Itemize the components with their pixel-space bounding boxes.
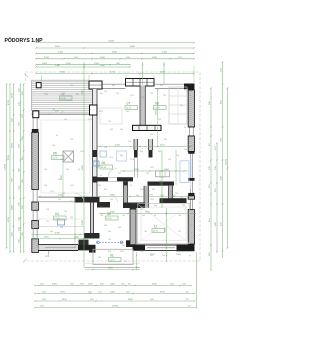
svg-text:900: 900 [110, 199, 113, 201]
svg-text:3650: 3650 [165, 226, 167, 232]
svg-text:3250: 3250 [55, 65, 61, 67]
right wall sill bar [188, 178, 194, 181]
top dim line 2 [35, 46, 194, 49]
svg-text:150: 150 [108, 121, 111, 123]
ticks below right wing [136, 255, 137, 256]
wall stub A [134, 139, 138, 158]
svg-text:1970: 1970 [109, 157, 113, 159]
svg-text:250: 250 [98, 185, 101, 187]
dim int v x63 [62, 162, 64, 197]
svg-text:90: 90 [148, 191, 150, 193]
right wall seg C2 [188, 196, 194, 199]
svg-text:900: 900 [170, 191, 173, 193]
left wall jamb [32, 129, 39, 132]
svg-text:800: 800 [154, 205, 157, 207]
svg-text:150: 150 [158, 119, 161, 121]
svg-text:DL 05: DL 05 [126, 108, 131, 110]
dim int v x176 [175, 150, 177, 185]
svg-text:DL 05: DL 05 [61, 98, 66, 100]
dim int v x75 [74, 198, 76, 248]
svg-text:12: 12 [61, 92, 65, 96]
left wall glass top [32, 118, 34, 129]
svg-text:800: 800 [98, 257, 101, 259]
svg-text:4700: 4700 [8, 216, 10, 222]
svg-text:600: 600 [180, 105, 183, 107]
svg-text:1970: 1970 [50, 191, 54, 193]
svg-text:700: 700 [122, 245, 125, 247]
svg-text:800: 800 [158, 151, 161, 153]
svg-text:2250: 2250 [44, 237, 50, 239]
counter room 04 [38, 225, 84, 227]
dim int h y171 [120, 170, 188, 172]
svg-text:150: 150 [104, 91, 107, 93]
window top wall left [89, 81, 102, 89]
top dim line 3 [35, 52, 194, 55]
svg-text:16040: 16040 [5, 163, 7, 170]
right wall bar B2 [188, 151, 194, 153]
svg-text:800: 800 [112, 85, 115, 87]
left wall bottom block [32, 239, 39, 253]
door arc hall [110, 195, 118, 203]
svg-text:150: 150 [60, 227, 63, 229]
svg-text:3100: 3100 [12, 92, 14, 98]
hall band wall B [123, 203, 145, 209]
right wall seg A hatched [188, 90, 194, 127]
svg-text:2450: 2450 [152, 57, 158, 59]
svg-text:250: 250 [178, 231, 181, 233]
right dim line 4 overall [226, 87, 229, 248]
top-right wall corner [184, 84, 195, 91]
svg-text:700: 700 [176, 155, 179, 157]
svg-text:1970: 1970 [88, 119, 92, 121]
top dim line 4 [35, 57, 194, 60]
svg-text:3900: 3900 [12, 142, 14, 148]
svg-text:2250: 2250 [66, 63, 72, 65]
section line A [96, 241, 124, 244]
svg-text:700: 700 [100, 215, 103, 217]
svg-text:700: 700 [64, 211, 67, 213]
svg-text:800: 800 [96, 167, 99, 169]
room label 12 [60, 92, 73, 100]
left dim line 5 [22, 83, 25, 252]
room 11 diagonal [138, 205, 189, 244]
dim int h y115 ticks [49, 113, 50, 114]
svg-text:1800: 1800 [88, 284, 94, 286]
svg-text:250: 250 [140, 251, 143, 253]
svg-text:2000: 2000 [42, 63, 48, 65]
svg-text:1970: 1970 [80, 151, 84, 153]
bottom dim connector right [196, 252, 198, 308]
room label 08 [154, 102, 167, 110]
svg-text:1970: 1970 [99, 111, 103, 113]
right wall bar C [188, 193, 194, 196]
svg-text:700: 700 [100, 207, 103, 209]
svg-text:900: 900 [184, 149, 187, 151]
svg-text:600: 600 [70, 201, 73, 203]
svg-text:DL 05: DL 05 [55, 218, 60, 220]
dim int v x157.5 [157, 88, 159, 147]
svg-text:4450: 4450 [162, 52, 168, 54]
bottom dim line 4 overall [34, 306, 197, 309]
svg-text:600: 600 [52, 145, 55, 147]
door niche on W1 [90, 105, 98, 115]
svg-text:1850: 1850 [61, 174, 63, 180]
svg-text:1970: 1970 [150, 167, 154, 169]
top dim line 1 overall [35, 41, 194, 44]
svg-text:900: 900 [126, 111, 129, 113]
tick below left wall [48, 252, 49, 253]
dim int h y67 [36, 66, 130, 68]
svg-text:600: 600 [164, 139, 167, 141]
I-wall top flange [84, 197, 100, 203]
bottom dim line 2 [34, 292, 195, 295]
room label 02 [106, 212, 119, 220]
svg-text:150: 150 [70, 139, 73, 141]
left dim line 2 [8, 83, 11, 252]
top dim line 5 [35, 63, 130, 66]
extension verticals top wall [41, 75, 43, 81]
dim int v x166.5 [166, 208, 168, 262]
svg-text:900: 900 [136, 195, 139, 197]
left wall pier 1 [32, 202, 39, 210]
right wall bottom corner [177, 244, 195, 251]
svg-text:4690: 4690 [112, 52, 118, 54]
porch step line [85, 267, 140, 269]
svg-text:5250: 5250 [160, 72, 166, 74]
right wall window bath 2 [190, 181, 192, 193]
door arc bath [108, 169, 117, 178]
svg-text:4700: 4700 [110, 72, 116, 74]
tiny dimension annotations [44, 85, 191, 263]
svg-text:700: 700 [178, 215, 181, 217]
svg-text:250: 250 [140, 209, 143, 211]
right wall seg B [188, 136, 194, 151]
svg-text:900: 900 [58, 179, 61, 181]
svg-text:150: 150 [46, 221, 49, 223]
svg-text:150: 150 [46, 209, 49, 211]
svg-text:11: 11 [154, 225, 158, 229]
svg-text:1200: 1200 [160, 179, 162, 185]
svg-text:06: 06 [102, 161, 106, 165]
svg-text:6100: 6100 [62, 299, 68, 301]
svg-text:3600: 3600 [108, 268, 114, 270]
svg-text:07: 07 [127, 102, 131, 106]
svg-text:250: 250 [108, 231, 111, 233]
wall stub B [149, 139, 153, 158]
svg-text:2350: 2350 [176, 254, 182, 256]
svg-text:3770: 3770 [148, 195, 154, 197]
svg-text:250: 250 [175, 193, 178, 195]
right wall window 3 [190, 199, 192, 209]
svg-text:5750: 5750 [60, 292, 66, 294]
svg-text:800: 800 [108, 251, 111, 253]
svg-text:250: 250 [118, 173, 121, 175]
room label 06 [100, 161, 113, 169]
svg-text:600: 600 [104, 189, 107, 191]
svg-text:4430: 4430 [55, 233, 61, 235]
svg-text:3000: 3000 [110, 284, 116, 286]
bottom wall left wing [38, 245, 78, 251]
dim int h y238.5 [31, 238, 99, 240]
svg-text:250: 250 [104, 147, 107, 149]
svg-text:2950: 2950 [164, 169, 170, 171]
room 11 left wall [130, 203, 136, 244]
svg-text:90: 90 [130, 185, 132, 187]
svg-text:2550: 2550 [44, 57, 50, 59]
svg-text:4050: 4050 [115, 145, 121, 147]
svg-text:2580: 2580 [110, 212, 116, 214]
dim int h y73.5 [36, 73, 194, 75]
top wall glazing band [102, 84, 184, 88]
wardrobe room 08 [169, 87, 187, 124]
svg-text:4500: 4500 [152, 284, 158, 286]
svg-text:5300: 5300 [58, 52, 64, 54]
hall band wall C [160, 198, 187, 203]
left wall seg A hatched [32, 132, 39, 189]
right wall window 1 [188, 127, 194, 136]
I-wall bottom flange [84, 233, 100, 239]
svg-text:90: 90 [154, 215, 156, 217]
entry step bump [79, 240, 89, 245]
svg-text:14440: 14440 [108, 41, 115, 43]
svg-text:600: 600 [120, 155, 123, 157]
shower [117, 151, 127, 161]
I-wall stem [91, 203, 94, 234]
svg-text:1970: 1970 [130, 159, 134, 161]
svg-text:9890: 9890 [130, 46, 136, 48]
svg-text:250: 250 [168, 159, 171, 161]
serving hatch below chimney [133, 125, 162, 130]
svg-text:DL 05: DL 05 [53, 158, 58, 160]
svg-text:250: 250 [108, 239, 111, 241]
svg-text:DL 05: DL 05 [110, 260, 115, 262]
svg-text:125: 125 [45, 256, 49, 258]
wall V2 [124, 181, 128, 204]
dim int h y213.5 [99, 213, 196, 215]
porch step line 2 [85, 262, 140, 264]
svg-text:150: 150 [58, 199, 61, 201]
svg-text:900: 900 [50, 231, 53, 233]
left dim line 1 overall [5, 83, 8, 248]
svg-text:90: 90 [56, 135, 58, 137]
svg-text:700: 700 [144, 231, 147, 233]
svg-text:6150: 6150 [160, 292, 166, 294]
bath-kitchen divider [133, 158, 135, 178]
svg-text:1970: 1970 [160, 195, 164, 197]
entry left jamb [78, 245, 96, 253]
right wall seg D hatched [188, 210, 194, 245]
svg-text:250: 250 [146, 173, 149, 175]
svg-text:700: 700 [150, 134, 153, 136]
svg-text:90: 90 [100, 175, 102, 177]
svg-text:1970: 1970 [70, 185, 74, 187]
entry right jamb [126, 240, 136, 247]
bed room 07 [100, 108, 122, 124]
room 05 dashed outline [41, 120, 90, 193]
left wall window 3 [32, 229, 34, 239]
svg-text:600: 600 [100, 93, 103, 95]
left dim line 3 [12, 83, 15, 252]
svg-text:700: 700 [182, 205, 185, 207]
terrace 12 boundary [32, 80, 93, 114]
svg-text:250: 250 [188, 225, 191, 227]
svg-text:2250: 2250 [94, 63, 100, 65]
kitchen counter [156, 171, 170, 177]
central wall chimney [140, 86, 145, 126]
dim int h y196.5 [38, 196, 194, 198]
svg-text:900: 900 [110, 129, 113, 131]
terrace 12 decking hatch [32, 82, 93, 112]
toilet [100, 151, 107, 157]
W1 dark cap 1 [93, 150, 98, 157]
svg-text:600: 600 [150, 255, 153, 257]
dim int h y234.5 [31, 234, 84, 236]
svg-text:700: 700 [150, 93, 153, 95]
svg-text:600: 600 [152, 189, 155, 191]
svg-text:700: 700 [122, 215, 125, 217]
svg-text:1970: 1970 [120, 251, 124, 253]
svg-text:15950: 15950 [112, 306, 119, 308]
svg-text:1970: 1970 [130, 95, 134, 97]
left dim line 4 [19, 83, 22, 252]
svg-text:150: 150 [62, 193, 65, 195]
dim int v x164 [163, 62, 165, 84]
terrace column mid-left [33, 111, 39, 118]
porch outline [93, 249, 133, 264]
kitchen sink [58, 219, 65, 225]
svg-text:4900: 4900 [82, 164, 84, 170]
interior wall W1 [93, 89, 98, 198]
svg-text:04: 04 [55, 212, 59, 216]
svg-text:800: 800 [118, 227, 121, 229]
room label 11 [152, 225, 165, 233]
svg-text:4550: 4550 [55, 46, 61, 48]
svg-text:3050: 3050 [145, 212, 151, 214]
svg-text:4000: 4000 [156, 109, 158, 115]
svg-text:600: 600 [160, 85, 163, 87]
svg-text:5560: 5560 [60, 72, 66, 74]
dim v right of porch [136, 252, 138, 270]
svg-text:05: 05 [53, 152, 57, 156]
svg-text:2250: 2250 [82, 89, 84, 95]
svg-text:1970: 1970 [60, 159, 64, 161]
washbasin [93, 161, 99, 166]
right wall window bath [190, 154, 192, 178]
svg-text:4700: 4700 [8, 99, 10, 105]
svg-text:4150: 4150 [160, 145, 166, 147]
svg-text:16040: 16040 [226, 158, 228, 165]
svg-text:250: 250 [66, 169, 69, 171]
svg-text:150: 150 [124, 261, 127, 263]
dim int v x84 [83, 62, 85, 268]
W1 dark cap 2 [93, 177, 98, 183]
right dim line 1 [209, 87, 212, 270]
svg-text:1970: 1970 [150, 199, 154, 201]
svg-text:150: 150 [64, 119, 67, 121]
svg-text:DL 05: DL 05 [153, 231, 158, 233]
dim int h y146.5 [97, 146, 194, 148]
bottom dim line 1 [34, 284, 191, 287]
room label 01 [109, 254, 122, 262]
wall V5 [169, 186, 173, 199]
svg-text:02: 02 [107, 212, 111, 216]
svg-text:4300: 4300 [110, 292, 116, 294]
bottom wall right wing [133, 244, 177, 250]
svg-text:1970: 1970 [160, 177, 164, 179]
svg-text:08: 08 [155, 102, 159, 106]
svg-text:700: 700 [44, 169, 47, 171]
terrace column top-left [36, 83, 41, 88]
svg-text:250: 250 [163, 95, 166, 97]
room label 04 [54, 212, 67, 220]
svg-text:900: 900 [44, 185, 47, 187]
svg-text:01: 01 [110, 254, 114, 258]
svg-text:DL 05: DL 05 [101, 167, 106, 169]
bottom dim line 3 [34, 299, 195, 302]
svg-text:1800: 1800 [134, 169, 140, 171]
svg-text:2800: 2800 [12, 204, 14, 210]
svg-text:1970: 1970 [140, 97, 144, 99]
svg-text:800: 800 [76, 94, 79, 96]
svg-text:2400: 2400 [100, 57, 106, 59]
right dim line 3 [221, 61, 224, 258]
svg-text:90: 90 [184, 127, 186, 129]
wall 04-05 dark block [75, 197, 85, 203]
svg-text:6700: 6700 [8, 154, 10, 160]
bathroom bottom wall B1 [93, 177, 134, 181]
right dim line 2 [215, 142, 218, 252]
svg-text:800: 800 [140, 151, 143, 153]
hall band wall A [97, 202, 110, 208]
svg-text:700: 700 [70, 85, 73, 87]
svg-text:9850: 9850 [128, 299, 134, 301]
left wall window 1 [32, 190, 34, 203]
svg-text:1970: 1970 [44, 94, 48, 96]
svg-text:90: 90 [78, 169, 80, 171]
dim int v x142.5 [142, 62, 144, 85]
dim int v x162 [161, 150, 163, 208]
svg-text:4350: 4350 [52, 284, 58, 286]
svg-text:2930: 2930 [100, 65, 106, 67]
svg-text:600: 600 [142, 215, 145, 217]
svg-text:150: 150 [180, 197, 183, 199]
room label 05 [52, 152, 65, 160]
svg-text:DL 05: DL 05 [107, 218, 112, 220]
svg-text:700: 700 [162, 255, 165, 257]
svg-text:2200: 2200 [82, 219, 84, 225]
svg-text:DL 05: DL 05 [155, 108, 160, 110]
svg-text:700: 700 [116, 93, 119, 95]
kitchen wall K1 [148, 182, 175, 186]
svg-text:900: 900 [120, 129, 123, 131]
door arc 04 [75, 194, 84, 203]
wall 04-05 light part [38, 197, 74, 199]
wall V4 [144, 186, 149, 208]
svg-text:700: 700 [52, 109, 55, 111]
dim int h y269.5 [85, 269, 140, 271]
roof overhang outline [24, 72, 201, 261]
bathtub [180, 161, 189, 183]
svg-text:800: 800 [140, 189, 143, 191]
window top wall big [126, 79, 155, 87]
room label 07 [125, 102, 138, 110]
skylight cross square [63, 151, 74, 162]
room 11 paving outline [138, 204, 190, 244]
svg-text:1970: 1970 [186, 91, 190, 93]
svg-text:600: 600 [104, 225, 107, 227]
svg-text:1970: 1970 [176, 251, 180, 253]
svg-text:900: 900 [70, 217, 73, 219]
